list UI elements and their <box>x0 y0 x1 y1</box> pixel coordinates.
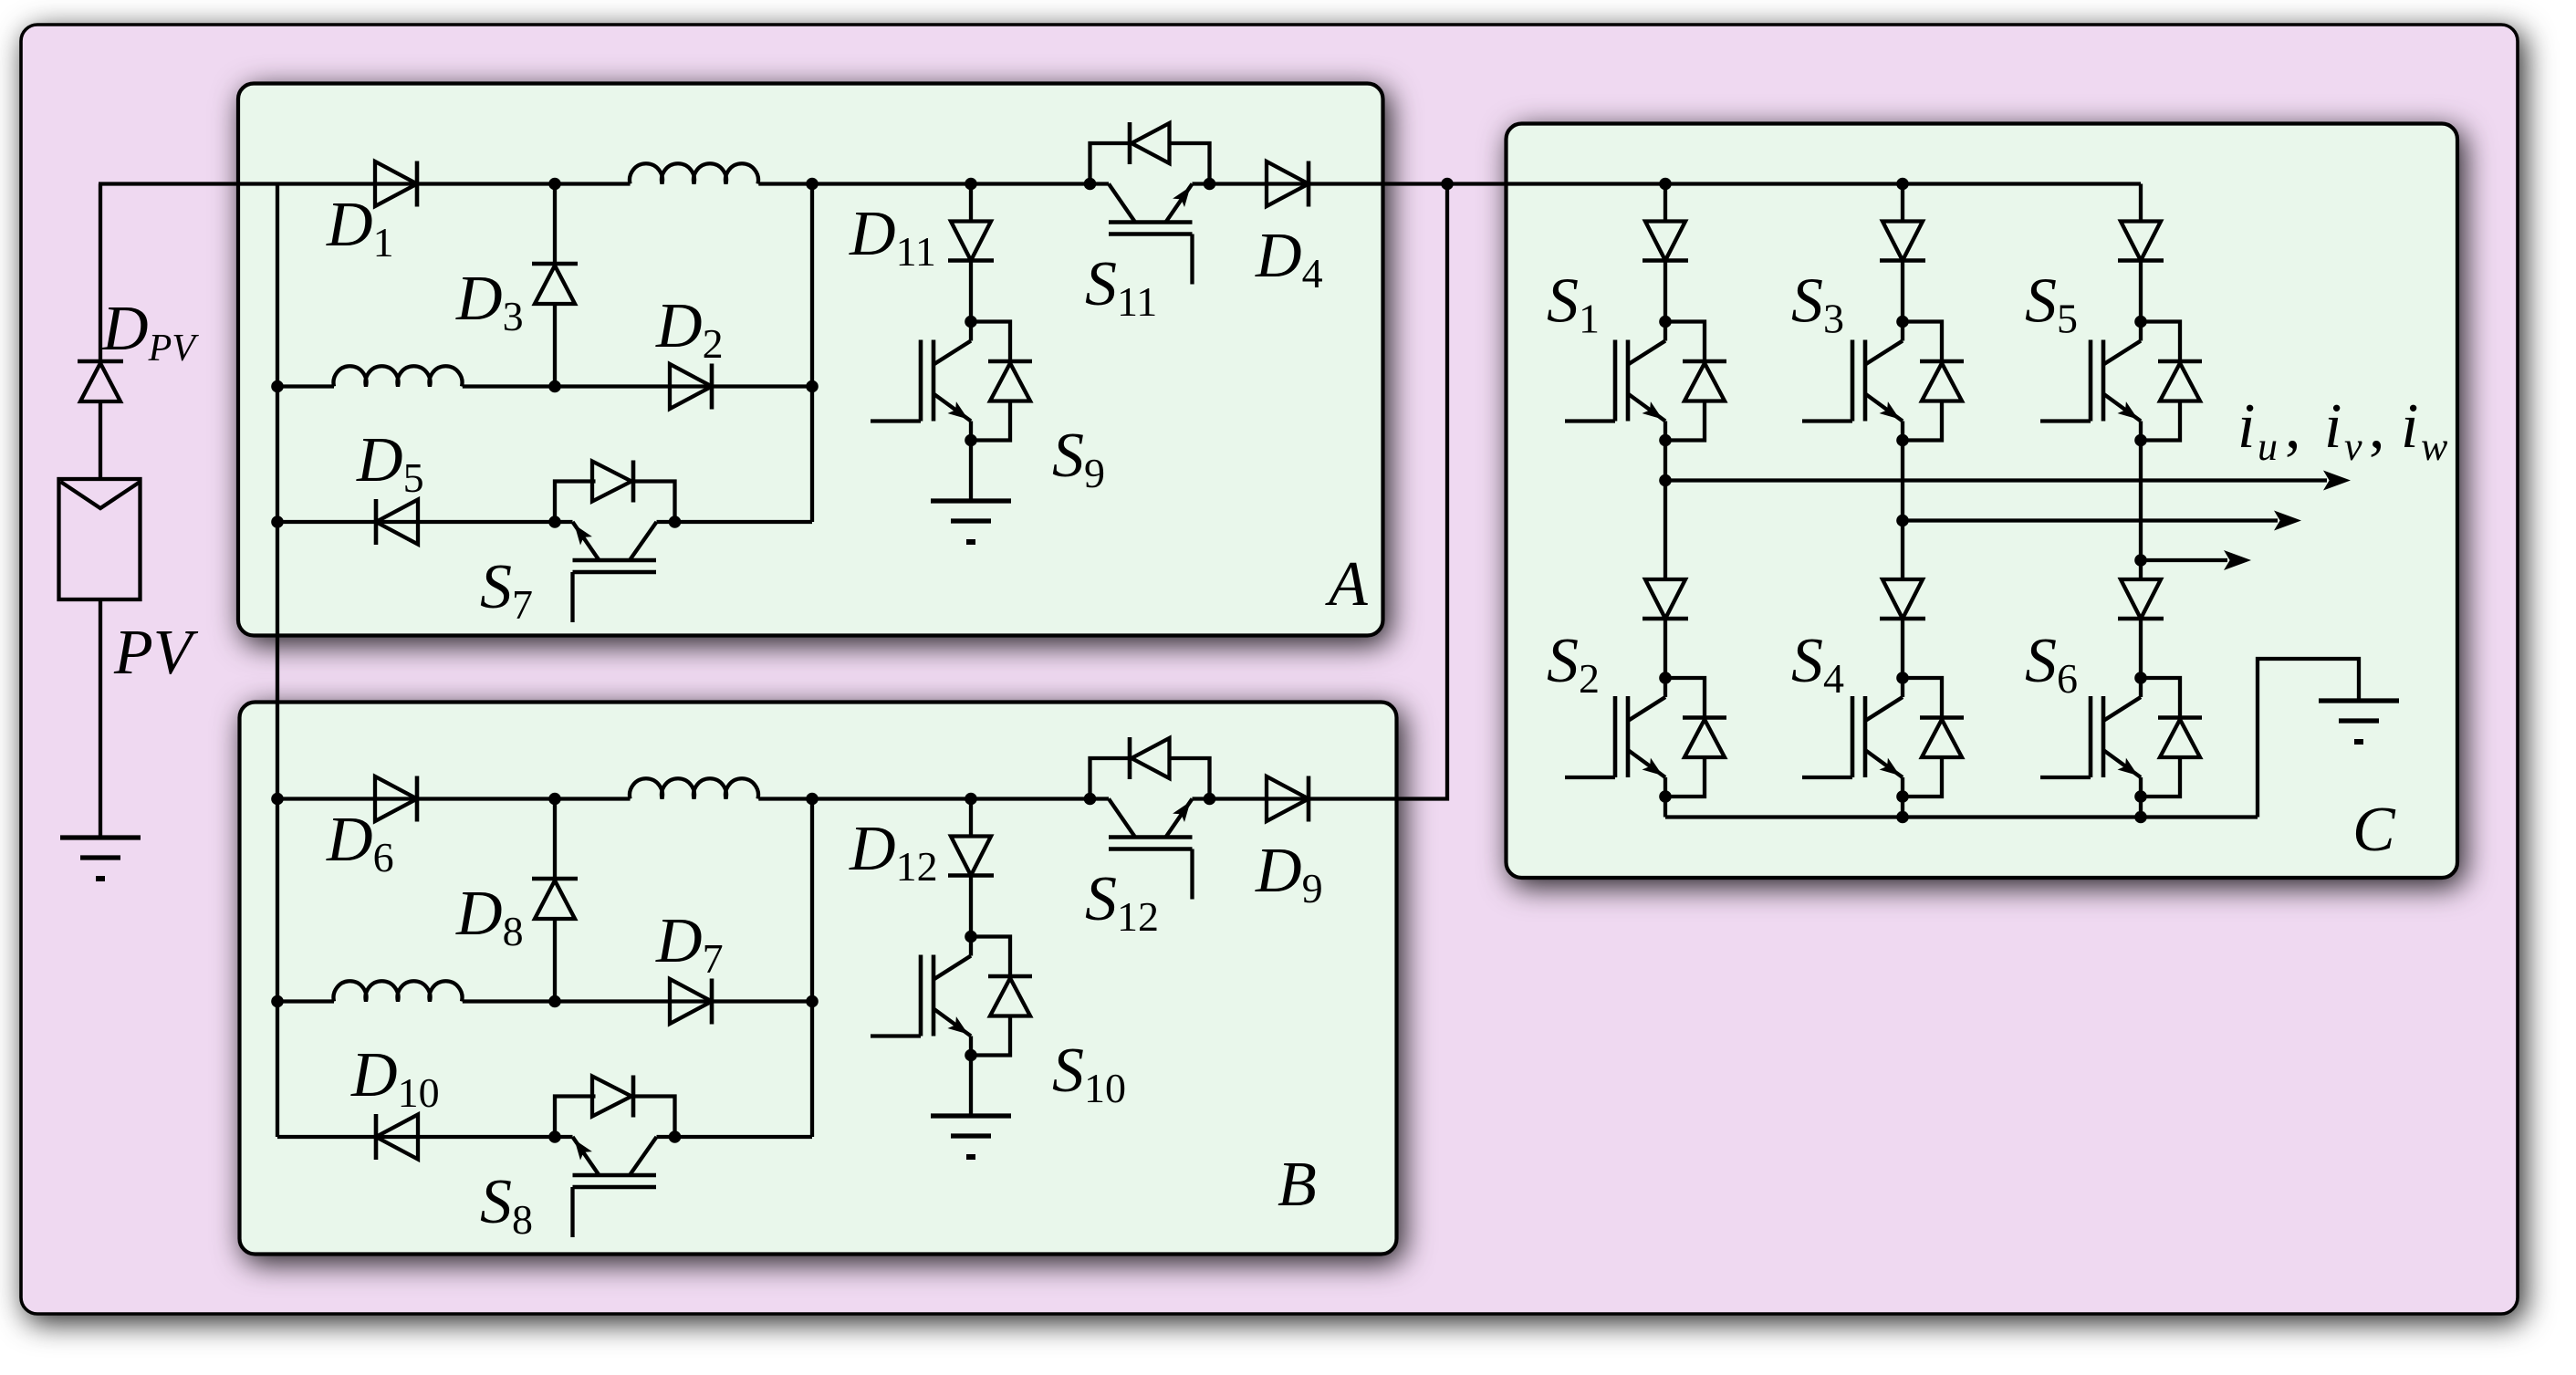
transistor S7 <box>548 516 681 622</box>
block B box <box>240 703 1397 1255</box>
wire B bottom rail right <box>675 1135 813 1139</box>
node top rail after L1 <box>806 178 819 191</box>
inductor L4 B mid rail <box>334 981 463 1001</box>
diode above S1 <box>1643 222 1688 261</box>
diode D11 <box>948 222 994 261</box>
svg-text:w: w <box>2421 424 2448 469</box>
wire panel to ground <box>99 599 102 838</box>
wire diode to S3 <box>1901 261 1904 322</box>
wire diode to S1 <box>1663 261 1667 322</box>
antiparallel diode of S6 <box>2141 678 2202 797</box>
wire diode to S2 <box>1663 619 1667 678</box>
wire diode to S4 <box>1901 619 1904 678</box>
output line v <box>1896 511 2301 531</box>
antiparallel diode of S11 <box>1090 122 1210 184</box>
wire S5 emitter to tap <box>2139 441 2143 580</box>
antiparallel diode of S5 <box>2141 322 2202 441</box>
block A box <box>238 84 1383 636</box>
wire leg upper S1 <box>1663 184 1667 222</box>
wire D12 to S10 <box>969 876 973 937</box>
transistor S8 <box>548 1130 681 1237</box>
node D12 top <box>965 793 977 806</box>
node D3 bottom <box>548 380 561 393</box>
inductor L3 B top rail <box>630 778 758 798</box>
wire vertical x=890 <box>810 184 814 523</box>
wire bottom rail left (D5) <box>277 520 555 524</box>
transistor S6 <box>2040 672 2147 803</box>
ground C <box>2319 701 2399 742</box>
antiparallel diode of S7 <box>555 461 675 523</box>
node junction main/B riser <box>1441 178 1454 191</box>
wire top rail (inductor to S11) <box>758 182 1090 185</box>
node C leg S3 top <box>1896 178 1909 191</box>
diode D8 <box>532 879 578 919</box>
wire diode to S6 <box>2139 619 2143 678</box>
wire leg upper S3 <box>1901 184 1904 222</box>
node B top rail after L3 <box>806 793 819 806</box>
svg-text:v: v <box>2344 424 2362 469</box>
diode above S3 <box>1880 222 1925 261</box>
wire D11 to S9 <box>969 261 973 322</box>
transistor S4 <box>1802 672 1909 803</box>
node bottom-rail left <box>271 516 284 528</box>
inductor L2 mid rail <box>334 366 463 386</box>
node B mid-rail right <box>806 995 819 1008</box>
output line u <box>1659 471 2351 491</box>
wire D12 branch <box>969 799 973 837</box>
left bus wire x=304 <box>276 184 279 523</box>
ground S9 <box>931 441 1011 543</box>
node bottom rail leg3 <box>2134 811 2147 824</box>
wire leg upper S5 <box>2139 184 2143 222</box>
wire bottom rail right (S7 to x890) <box>675 520 813 524</box>
ground S10 <box>931 1056 1011 1158</box>
wire DPV to panel <box>99 401 102 479</box>
wire mid rail <box>277 384 334 388</box>
svg-text:,: , <box>2285 391 2301 462</box>
svg-text:u: u <box>2258 424 2278 469</box>
wire S2 emitter to rail <box>1663 797 1667 818</box>
transistor S2 <box>1565 672 1672 803</box>
transistor S10 <box>871 931 977 1062</box>
diode above S5 <box>2118 222 2164 261</box>
diode D4 <box>1267 161 1309 207</box>
PV panel <box>59 479 141 599</box>
node mid-rail left <box>271 380 284 393</box>
svg-text:,: , <box>2369 391 2385 462</box>
output line w <box>2134 550 2251 570</box>
diode above S6 <box>2118 579 2164 619</box>
antiparallel diode of S12 <box>1090 737 1210 799</box>
node B mid-rail left <box>271 995 284 1008</box>
wire ground riser C <box>2258 659 2359 818</box>
antiparallel diode of S4 <box>1903 678 1964 797</box>
diode D9 <box>1267 776 1309 822</box>
svg-text:i: i <box>2324 391 2341 462</box>
ground PV <box>60 838 141 879</box>
wire C bottom rail <box>1665 815 2258 818</box>
wire B bottom rail left (D10) <box>277 1135 555 1139</box>
node C leg S1 top <box>1659 178 1672 191</box>
wire B mid rail <box>277 999 334 1003</box>
diode D2 <box>670 364 712 410</box>
wire B top rail <box>277 797 631 800</box>
svg-text:i: i <box>2401 391 2418 462</box>
wire S1 emitter to tap <box>1663 441 1667 580</box>
svg-text:A: A <box>1325 549 1368 620</box>
transistor S9 <box>871 316 977 447</box>
label iu iv iw <box>2237 391 2448 469</box>
node D11 top <box>965 178 977 191</box>
diode DPV <box>78 361 123 401</box>
wire vertical x=890 B <box>810 799 814 1138</box>
wire S3 emitter to tap <box>1901 441 1904 580</box>
transistor S3 <box>1802 316 1909 447</box>
wire D11 branch <box>969 184 973 222</box>
transistor S5 <box>2040 316 2147 447</box>
diode D5 <box>376 499 418 545</box>
diode D12 <box>948 837 994 876</box>
diode D7 <box>670 979 712 1025</box>
antiparallel diode of S1 <box>1665 322 1726 441</box>
left bus wire B <box>276 522 279 1137</box>
wire diode to S5 <box>2139 261 2143 322</box>
node bottom rail leg2 <box>1896 811 1909 824</box>
diode D3 <box>532 264 578 304</box>
transistor S11 <box>1084 178 1216 285</box>
block C box <box>1507 124 2458 879</box>
antiparallel diode of S8 <box>555 1076 675 1138</box>
wire S4 emitter to rail <box>1901 797 1904 818</box>
wire S6 emitter to rail <box>2139 797 2143 818</box>
node mid-rail right <box>806 380 819 393</box>
wire D3 branch upper <box>553 184 557 265</box>
inductor L1 top rail <box>630 163 758 183</box>
wire D8 branch upper <box>553 799 557 880</box>
svg-text:B: B <box>1278 1150 1317 1220</box>
diode D10 <box>376 1114 418 1160</box>
diode above S4 <box>1880 579 1925 619</box>
node D3 top <box>548 178 561 191</box>
wire PV vertical top <box>99 184 102 362</box>
transistor S12 <box>1084 793 1216 900</box>
node B top-rail left <box>271 793 284 806</box>
transistor S1 <box>1565 316 1672 447</box>
antiparallel diode of S10 <box>971 937 1032 1056</box>
diode D1 <box>375 161 417 207</box>
wire top rail (PV to inductor) <box>99 182 631 185</box>
wire D3 branch lower <box>553 304 557 387</box>
wire top rail S11 to C leg3 <box>1210 182 2142 185</box>
node D8 top <box>548 793 561 806</box>
diode D6 <box>375 776 417 822</box>
node D8 bottom <box>548 995 561 1008</box>
antiparallel diode of S3 <box>1903 322 1964 441</box>
wire S12 to D9 <box>1210 797 1309 800</box>
svg-text:C: C <box>2352 795 2396 865</box>
antiparallel diode of S9 <box>971 322 1032 441</box>
wire D8 branch lower <box>553 919 557 1002</box>
svg-text:i: i <box>2237 391 2255 462</box>
svg-text:PV: PV <box>113 618 199 688</box>
wire B output riser <box>1309 184 1447 799</box>
diode above S2 <box>1643 579 1688 619</box>
antiparallel diode of S2 <box>1665 678 1726 797</box>
